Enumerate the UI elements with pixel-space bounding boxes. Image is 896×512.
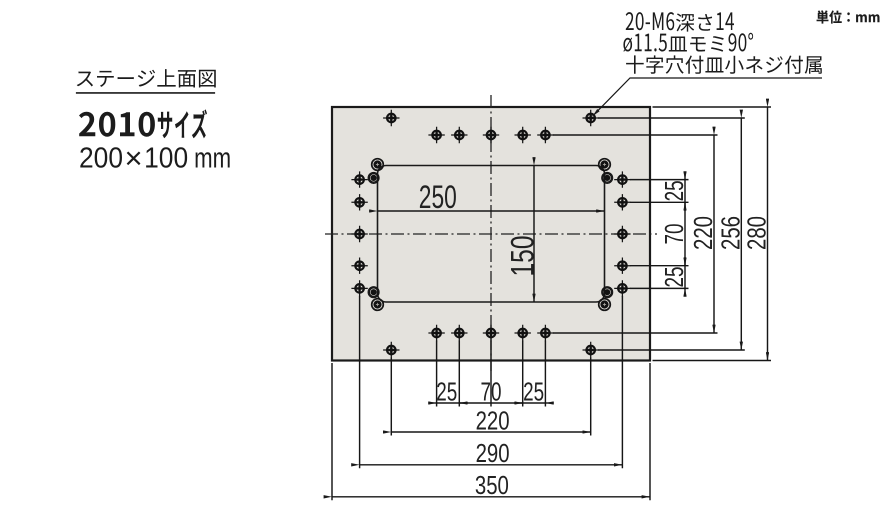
svg-text:25: 25 — [659, 180, 689, 201]
svg-text:280: 280 — [742, 216, 772, 250]
svg-text:25: 25 — [523, 376, 544, 406]
svg-text:220: 220 — [688, 216, 718, 250]
svg-text:200×100mm: 200×100mm — [79, 140, 231, 175]
svg-text:220: 220 — [476, 405, 510, 435]
svg-text:70: 70 — [659, 224, 689, 245]
svg-text:150: 150 — [504, 236, 540, 277]
svg-text:25: 25 — [436, 376, 457, 406]
svg-text:290: 290 — [476, 438, 510, 468]
svg-text:70: 70 — [481, 376, 502, 406]
svg-text:350: 350 — [475, 470, 509, 500]
svg-text:25: 25 — [659, 267, 689, 288]
svg-text:250: 250 — [419, 179, 457, 215]
